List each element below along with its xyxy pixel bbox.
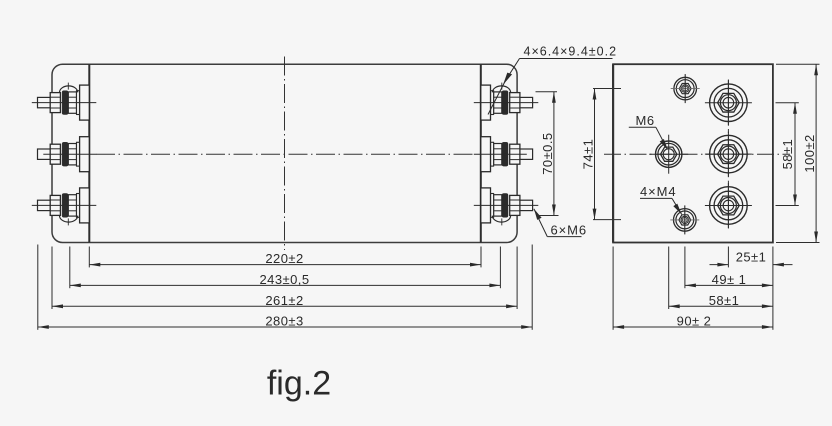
svg-text:220±2: 220±2 bbox=[265, 251, 303, 266]
extension lines right bbox=[480, 247, 482, 268]
horizontal centerline bbox=[604, 153, 790, 155]
big terminal B3 bbox=[705, 183, 752, 228]
M4 screw top bbox=[671, 74, 700, 103]
label 6xM6 leader bbox=[534, 209, 587, 238]
M6 ground stud bbox=[649, 135, 688, 174]
svg-text:58±1: 58±1 bbox=[709, 293, 740, 308]
big terminal B2 bbox=[705, 132, 752, 177]
dim 25±1 outside arrows bbox=[710, 264, 729, 266]
svg-text:4×M4: 4×M4 bbox=[640, 184, 676, 199]
svg-text:25±1: 25±1 bbox=[736, 250, 767, 265]
label 4x6.4x9.4 leader bbox=[488, 45, 617, 115]
svg-text:280±3: 280±3 bbox=[265, 314, 303, 329]
horizontal centerline bbox=[96, 153, 474, 155]
vertical centerline bbox=[284, 57, 286, 251]
dim 70±0.5 vertical bbox=[536, 92, 559, 216]
dim 100±2 vertical bbox=[776, 64, 820, 242]
dim 58±1 right vertical bbox=[776, 103, 799, 206]
dim 49±1 bbox=[685, 284, 773, 286]
dim 243±0,5 bbox=[70, 284, 501, 286]
svg-text:4×6.4×9.4±0.2: 4×6.4×9.4±0.2 bbox=[524, 45, 618, 59]
terminal T2 mid-left bbox=[38, 137, 97, 172]
svg-text:100±2: 100±2 bbox=[802, 134, 817, 172]
end face outline bbox=[613, 64, 773, 242]
terminal T1 top-left bbox=[32, 83, 97, 121]
dim 90±2 bbox=[613, 326, 773, 328]
svg-text:90± 2: 90± 2 bbox=[677, 314, 712, 329]
dim 280±3 bbox=[38, 326, 532, 328]
big terminal B1 bbox=[705, 80, 752, 125]
svg-text:M6: M6 bbox=[636, 113, 655, 128]
svg-text:6×M6: 6×M6 bbox=[551, 223, 587, 238]
dim 261±2 bbox=[52, 305, 517, 307]
terminal T6 bottom-right bbox=[474, 188, 539, 226]
svg-text:fig.2: fig.2 bbox=[267, 365, 331, 403]
svg-text:49± 1: 49± 1 bbox=[712, 272, 747, 287]
vertical centerline big terminals bbox=[727, 80, 729, 126]
right end-cap line bbox=[480, 64, 482, 242]
label 4xM4 bbox=[640, 184, 682, 214]
svg-text:58±1: 58±1 bbox=[780, 139, 795, 170]
svg-text:243±0,5: 243±0,5 bbox=[259, 272, 309, 287]
terminal T5 mid-right bbox=[474, 137, 533, 172]
M4 screw bottom bbox=[670, 205, 699, 234]
dim 58±1 bottom bbox=[669, 305, 773, 307]
left end-cap line bbox=[88, 64, 90, 242]
terminal T4 top-right bbox=[474, 83, 539, 121]
dim 220±2 bbox=[89, 264, 481, 266]
svg-text:70±0.5: 70±0.5 bbox=[540, 132, 555, 174]
filter body outline bbox=[52, 64, 517, 242]
label M6 bbox=[629, 113, 668, 150]
terminal T3 bottom-left bbox=[32, 188, 97, 226]
svg-text:261±2: 261±2 bbox=[265, 293, 303, 308]
bottom dims right view: extension lines bbox=[612, 247, 614, 330]
bottom dims: extension lines left bbox=[37, 245, 39, 330]
dim 74±1 vertical bbox=[581, 89, 622, 220]
svg-text:74±1: 74±1 bbox=[581, 139, 596, 170]
